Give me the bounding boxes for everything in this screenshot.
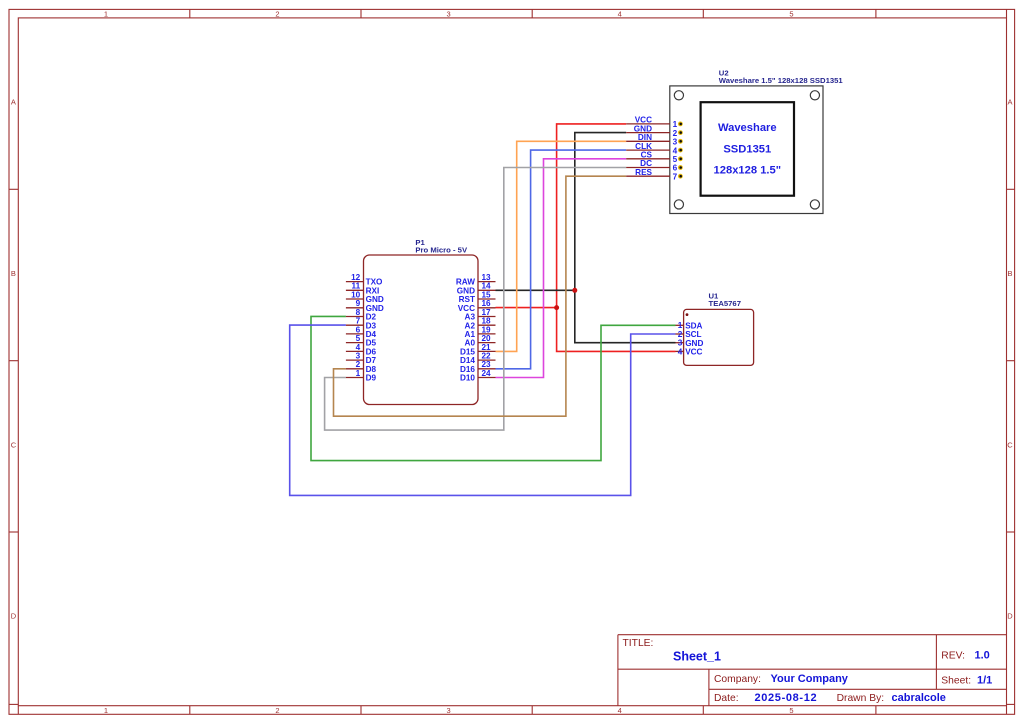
P1 pin 17 A3 <box>465 308 496 322</box>
svg-text:5: 5 <box>789 9 793 18</box>
svg-text:REV:: REV: <box>941 651 965 662</box>
U2 pin 5 CS <box>626 151 683 165</box>
P1 pin 8 D2 <box>346 308 377 322</box>
svg-text:1: 1 <box>678 321 683 330</box>
svg-text:D7: D7 <box>366 356 377 365</box>
wire GND: U2 pin2 to U1 pin3 <box>575 133 676 343</box>
svg-text:2: 2 <box>275 706 279 715</box>
P1 pin 7 D3 <box>346 317 377 331</box>
svg-text:VCC: VCC <box>458 304 475 313</box>
svg-text:C: C <box>1007 440 1013 449</box>
svg-text:10: 10 <box>351 290 361 299</box>
P1 pin 11 RXI <box>346 282 379 296</box>
svg-text:A1: A1 <box>465 330 476 339</box>
title block sheet name Sheet_1 <box>673 650 721 664</box>
svg-text:1: 1 <box>356 369 361 378</box>
svg-text:2: 2 <box>275 9 279 18</box>
IC U1 TEA5767 body <box>684 309 754 365</box>
svg-text:Company:: Company: <box>714 674 761 685</box>
svg-text:11: 11 <box>352 282 361 291</box>
svg-text:4: 4 <box>618 706 622 715</box>
svg-text:A3: A3 <box>465 313 476 322</box>
U2 screen text SSD1351 <box>723 143 771 155</box>
P1 pin 24 D10 <box>460 369 496 383</box>
svg-text:SSD1351: SSD1351 <box>723 143 771 155</box>
svg-text:3: 3 <box>447 706 451 715</box>
svg-text:D3: D3 <box>366 321 377 330</box>
svg-text:A: A <box>11 98 16 107</box>
svg-text:D16: D16 <box>460 365 475 374</box>
svg-text:13: 13 <box>482 273 492 282</box>
P1 pin 3 D7 <box>346 352 377 366</box>
U2 screen area <box>701 102 794 196</box>
title block date value 2025-08-12 <box>755 692 818 704</box>
label U1 value TEA5767 <box>709 299 741 308</box>
svg-text:3: 3 <box>678 339 683 348</box>
svg-text:6: 6 <box>356 325 361 334</box>
title block rev value 1.0 <box>975 650 990 662</box>
U2 pin 2 GND <box>626 124 683 138</box>
wire CS: P1 pin24 D10 to U2 pin5 <box>496 159 627 378</box>
U2 pin 6 DC <box>626 159 683 173</box>
svg-text:5: 5 <box>356 334 361 343</box>
svg-text:1: 1 <box>673 120 678 129</box>
svg-text:7: 7 <box>356 317 361 326</box>
svg-text:3: 3 <box>356 352 361 361</box>
P1 pin 20 A0 <box>465 334 496 348</box>
svg-text:18: 18 <box>482 317 492 326</box>
svg-text:Sheet_1: Sheet_1 <box>673 650 721 664</box>
svg-text:24: 24 <box>482 369 492 378</box>
svg-text:DC: DC <box>640 159 652 168</box>
svg-text:128x128 1.5": 128x128 1.5" <box>714 165 782 177</box>
P1 pin 14 GND <box>457 282 496 296</box>
wire SDA: P1 pin8 D2 to U1 pin1 <box>311 316 676 460</box>
U1 pin1 marker dot <box>686 313 689 316</box>
svg-text:A2: A2 <box>465 321 476 330</box>
svg-text:RAW: RAW <box>456 278 475 287</box>
svg-text:15: 15 <box>482 290 492 299</box>
wire SCL: P1 pin7 D3 to U1 pin2 <box>290 325 676 495</box>
P1 pin 1 D9 <box>346 369 377 383</box>
svg-text:17: 17 <box>482 308 492 317</box>
svg-text:D5: D5 <box>366 339 377 348</box>
U1 pin 4 VCC <box>676 347 703 356</box>
svg-text:4: 4 <box>618 9 622 18</box>
title block drawn by value cabralcole <box>892 692 946 704</box>
U1 pin 3 GND <box>676 339 704 348</box>
P1 pin 16 VCC <box>458 299 496 313</box>
svg-text:19: 19 <box>482 325 492 334</box>
wire VCC: P1 pin16 to junction <box>496 307 557 309</box>
svg-text:SCL: SCL <box>685 330 701 339</box>
svg-text:RST: RST <box>459 295 475 304</box>
svg-text:20: 20 <box>482 334 492 343</box>
P1 pin 22 D14 <box>460 352 496 366</box>
svg-text:Sheet:: Sheet: <box>941 676 971 687</box>
svg-text:GND: GND <box>634 124 652 133</box>
svg-text:TITLE:: TITLE: <box>623 638 654 649</box>
svg-text:CS: CS <box>641 151 653 160</box>
P1 pin 12 TXO <box>346 273 383 287</box>
svg-text:5: 5 <box>789 706 793 715</box>
svg-text:1/1: 1/1 <box>977 675 992 687</box>
svg-text:GND: GND <box>685 339 703 348</box>
U2 pin 1 VCC <box>626 116 683 130</box>
P1 pin 9 GND <box>346 299 384 313</box>
wire DC: P1 pin1 D9 to U2 pin6 <box>325 168 627 431</box>
title block lines <box>618 635 1007 706</box>
svg-text:21: 21 <box>482 343 492 352</box>
U1 pin 1 SDA <box>676 321 703 330</box>
title block Company label <box>714 674 761 685</box>
P1 pin 23 D16 <box>460 360 496 374</box>
svg-text:3: 3 <box>447 9 451 18</box>
label U1 reference <box>709 292 720 301</box>
svg-text:3: 3 <box>673 138 678 147</box>
svg-text:C: C <box>11 440 17 449</box>
label P1 value Pro Micro - 5V <box>415 246 468 255</box>
svg-text:Date:: Date: <box>714 693 739 704</box>
svg-text:Waveshare: Waveshare <box>718 122 777 134</box>
svg-text:2: 2 <box>673 129 678 138</box>
U2 screen text 128x128 1.5" <box>714 165 782 177</box>
svg-text:DIN: DIN <box>638 133 652 142</box>
label U2 value Waveshare 1.5" 128x128 SSD1351 <box>719 76 844 85</box>
U2 pin 7 RES <box>626 168 683 182</box>
P1 pin 21 D15 <box>460 343 496 357</box>
IC P1 Pro Micro - 5V body <box>364 255 479 405</box>
display module U2 outer body <box>670 86 823 214</box>
svg-text:8: 8 <box>356 308 361 317</box>
title block Date label <box>714 693 739 704</box>
svg-text:1: 1 <box>104 706 108 715</box>
P1 pin 18 A2 <box>465 317 496 331</box>
U2 pin 4 CLK <box>626 142 683 156</box>
wire GND: P1 pin14 to junction <box>496 289 575 291</box>
svg-text:7: 7 <box>673 172 678 181</box>
title block TITLE label <box>623 638 654 649</box>
svg-text:23: 23 <box>482 360 492 369</box>
svg-text:2: 2 <box>356 360 361 369</box>
P1 pin 2 D8 <box>346 360 377 374</box>
svg-text:6: 6 <box>673 164 678 173</box>
P1 pin 15 RST <box>459 290 496 304</box>
title block company value Your Company <box>771 673 849 685</box>
U2 pin 3 DIN <box>626 133 683 147</box>
U1 pin 2 SCL <box>676 330 702 339</box>
svg-text:4: 4 <box>356 343 361 352</box>
svg-text:5: 5 <box>673 155 678 164</box>
svg-text:D9: D9 <box>366 374 377 383</box>
P1 pin 10 GND <box>346 290 384 304</box>
svg-text:RXI: RXI <box>366 286 380 295</box>
wire RES: P1 pin2 D8 to U2 pin7 <box>334 176 627 416</box>
svg-text:16: 16 <box>482 299 492 308</box>
svg-text:GND: GND <box>457 286 475 295</box>
svg-text:SDA: SDA <box>685 321 702 330</box>
svg-text:CLK: CLK <box>635 142 652 151</box>
title block REV label <box>941 651 965 662</box>
label U2 reference <box>719 68 729 77</box>
svg-text:D4: D4 <box>366 330 377 339</box>
svg-text:2025-08-12: 2025-08-12 <box>755 692 818 704</box>
P1 pin 13 RAW <box>456 273 496 287</box>
P1 pin 19 A1 <box>465 325 496 339</box>
svg-text:cabralcole: cabralcole <box>892 692 946 704</box>
svg-text:A0: A0 <box>465 339 476 348</box>
svg-text:GND: GND <box>366 304 384 313</box>
svg-text:22: 22 <box>482 352 492 361</box>
P1 pin 5 D5 <box>346 334 377 348</box>
junction on GND net <box>572 288 577 293</box>
svg-text:B: B <box>1007 269 1012 278</box>
svg-text:RES: RES <box>635 168 652 177</box>
wire CLK: P1 pin23 D16 to U2 pin4 <box>496 150 627 369</box>
U2 mounting hole top-left <box>674 91 683 100</box>
svg-text:D10: D10 <box>460 374 475 383</box>
title block Drawn By label <box>837 693 885 704</box>
svg-text:B: B <box>11 269 16 278</box>
U2 mounting hole top-right <box>810 91 819 100</box>
svg-text:12: 12 <box>351 273 361 282</box>
wire VCC: U2 pin1 to U1 pin4 <box>557 124 676 352</box>
label P1 reference <box>415 238 425 247</box>
svg-text:2: 2 <box>678 330 683 339</box>
svg-text:Your Company: Your Company <box>771 673 849 685</box>
svg-text:D2: D2 <box>366 313 377 322</box>
svg-text:Waveshare 1.5" 128x128 SSD1351: Waveshare 1.5" 128x128 SSD1351 <box>719 76 844 85</box>
U2 screen text Waveshare <box>718 122 777 134</box>
U2 mounting hole bottom-right <box>810 200 819 209</box>
svg-text:1: 1 <box>104 9 108 18</box>
svg-text:TEA5767: TEA5767 <box>709 299 741 308</box>
wire DIN: P1 pin21 D15 to U2 pin3 <box>496 141 627 351</box>
svg-text:TXO: TXO <box>366 278 383 287</box>
svg-text:4: 4 <box>678 347 683 356</box>
svg-text:1.0: 1.0 <box>975 650 990 662</box>
svg-text:A: A <box>1007 98 1012 107</box>
svg-text:Pro Micro - 5V: Pro Micro - 5V <box>415 246 468 255</box>
U2 mounting hole bottom-left <box>674 200 683 209</box>
svg-text:4: 4 <box>673 146 678 155</box>
svg-text:VCC: VCC <box>685 348 702 357</box>
svg-text:D6: D6 <box>366 348 377 357</box>
svg-text:D15: D15 <box>460 348 475 357</box>
svg-text:D: D <box>1007 612 1013 621</box>
P1 pin 4 D6 <box>346 343 377 357</box>
svg-text:VCC: VCC <box>635 116 652 125</box>
P1 pin 6 D4 <box>346 325 377 339</box>
title block sheet value 1/1 <box>977 675 992 687</box>
svg-text:D: D <box>11 612 17 621</box>
svg-text:GND: GND <box>366 295 384 304</box>
svg-text:D14: D14 <box>460 356 475 365</box>
junction on VCC net <box>554 305 559 310</box>
svg-text:9: 9 <box>356 299 361 308</box>
svg-text:D8: D8 <box>366 365 377 374</box>
svg-text:Drawn By:: Drawn By: <box>837 693 885 704</box>
title block Sheet label <box>941 676 971 687</box>
svg-text:14: 14 <box>482 282 492 291</box>
